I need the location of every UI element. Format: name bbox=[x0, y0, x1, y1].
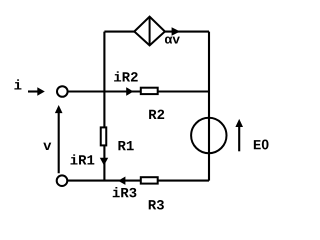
wire: bottom wire from terminal B to right rail bbox=[67, 180, 209, 182]
voltage arrow v bbox=[43, 105, 62, 173]
wire: left vertical branch through R1 bbox=[103, 32, 105, 181]
current arrow iR3 bbox=[113, 177, 137, 198]
wire: middle horizontal wire from terminal A to right rail bbox=[68, 90, 209, 92]
resistor R2 bbox=[141, 88, 164, 119]
current arrow iR1 bbox=[71, 154, 109, 165]
resistor R3 bbox=[141, 177, 164, 209]
resistor R1 bbox=[101, 127, 134, 150]
wire: top rail from left branch to right rail bbox=[104, 31, 209, 33]
current arrow of dependent source αv bbox=[165, 27, 180, 43]
node A terminal (top-left open circle) bbox=[57, 86, 68, 97]
voltage arrow E0 bbox=[235, 119, 268, 151]
source E0 (circle) bbox=[191, 118, 226, 153]
current arrow i bbox=[14, 79, 44, 95]
node B terminal (bottom-left open circle) bbox=[57, 175, 68, 186]
current arrow iR2 bbox=[114, 71, 138, 95]
wire: right rail (top corner down to bottom corner) bbox=[208, 32, 210, 181]
dependent source U1 diamond (alpha*v) bbox=[134, 17, 165, 46]
